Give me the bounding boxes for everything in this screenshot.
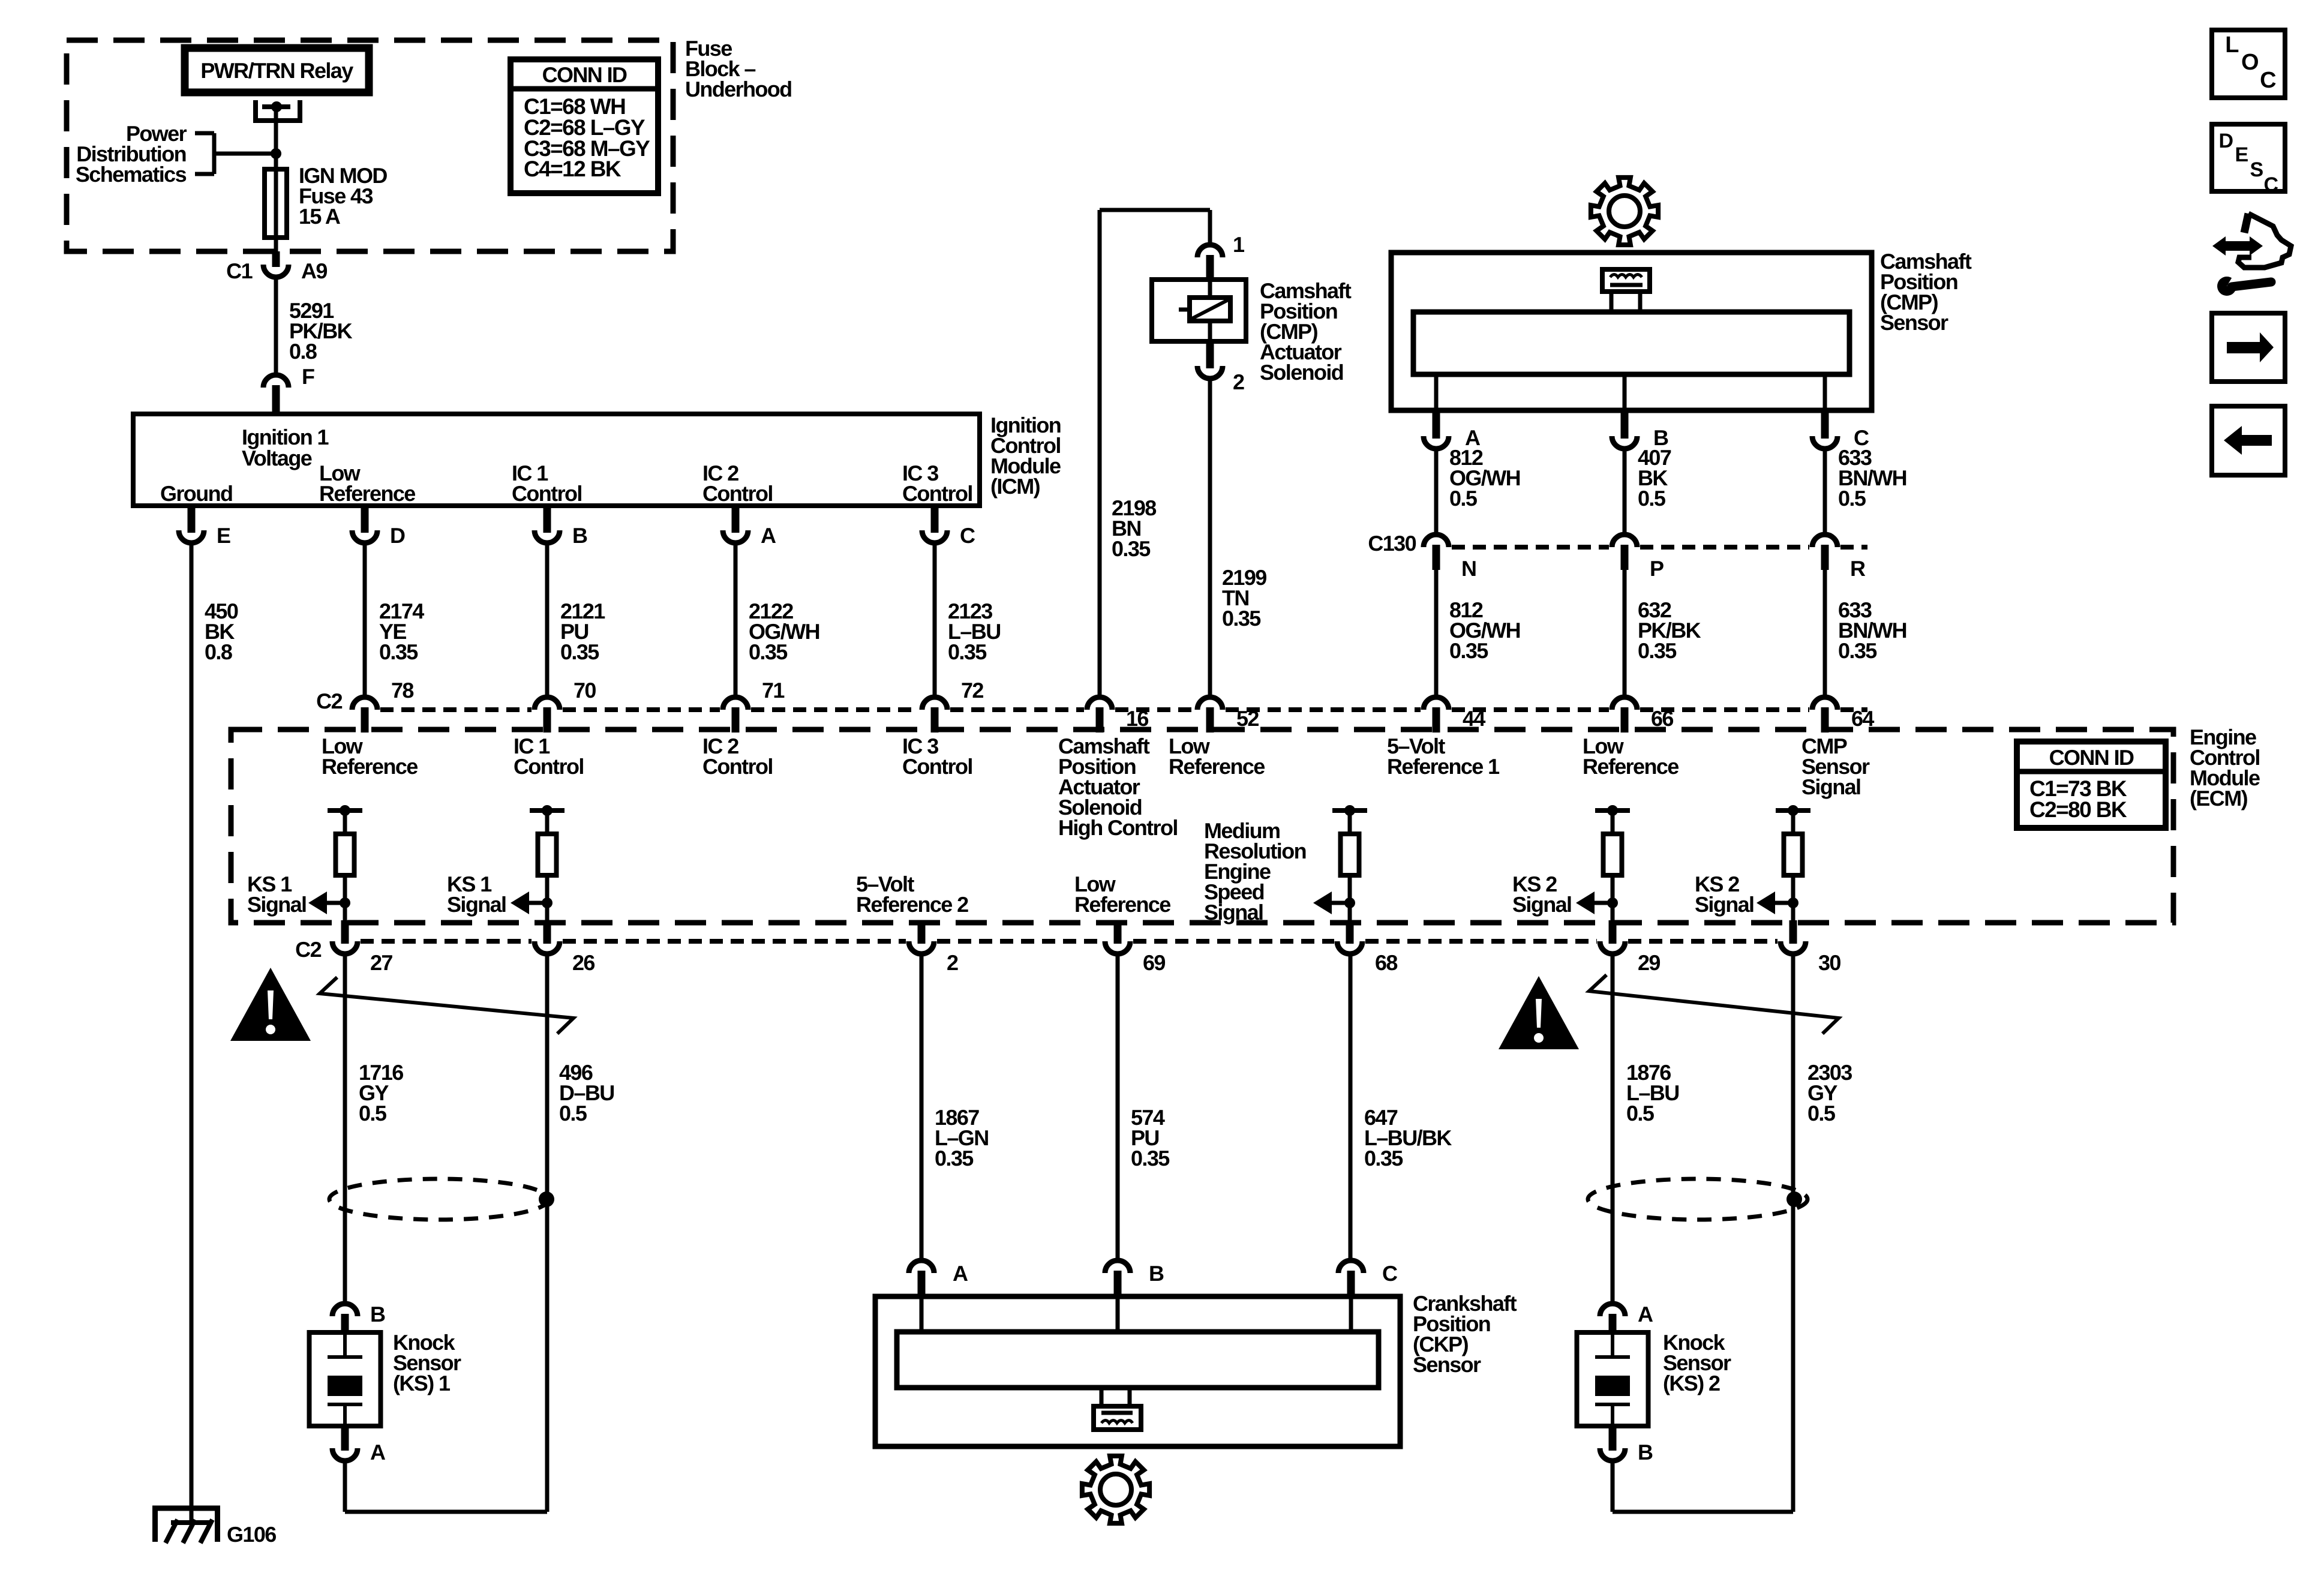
svg-text:C130: C130 [1368, 531, 1416, 556]
svg-text:0.35: 0.35 [948, 640, 987, 664]
svg-text:0.35: 0.35 [379, 640, 418, 664]
svg-text:0.35: 0.35 [1222, 606, 1261, 631]
svg-text:C2: C2 [316, 689, 342, 713]
svg-text:L: L [2225, 32, 2239, 58]
svg-text:Signal: Signal [1204, 900, 1263, 924]
svg-text:0.35: 0.35 [749, 640, 788, 664]
svg-text:0.35: 0.35 [560, 640, 599, 664]
svg-text:CONN ID: CONN ID [2049, 745, 2134, 770]
svg-text:27: 27 [370, 950, 392, 975]
svg-text:D: D [2219, 130, 2233, 152]
svg-text:2: 2 [1233, 370, 1244, 394]
svg-text:B: B [572, 523, 587, 548]
svg-text:0.35: 0.35 [1638, 638, 1677, 663]
svg-text:0.5: 0.5 [1838, 486, 1866, 511]
svg-text:P: P [1650, 556, 1664, 581]
svg-text:Signal: Signal [247, 892, 306, 917]
svg-text:0.5: 0.5 [559, 1101, 587, 1125]
svg-text:Control: Control [702, 481, 773, 506]
svg-text:Sensor: Sensor [1413, 1352, 1481, 1377]
svg-text:(ECM): (ECM) [2190, 786, 2248, 810]
svg-text:0.5: 0.5 [1638, 486, 1666, 511]
svg-text:High Control: High Control [1058, 815, 1178, 840]
svg-text:Control: Control [902, 754, 972, 779]
svg-text:E: E [217, 523, 230, 548]
svg-text:0.5: 0.5 [359, 1101, 387, 1125]
svg-text:Reference: Reference [1074, 892, 1170, 917]
svg-text:0.5: 0.5 [1626, 1101, 1655, 1125]
svg-text:G106: G106 [227, 1522, 276, 1547]
svg-text:Reference: Reference [1583, 754, 1679, 779]
svg-text:(ICM): (ICM) [990, 474, 1040, 499]
svg-text:Control: Control [902, 481, 972, 506]
svg-text:PWR/TRN Relay: PWR/TRN Relay [200, 58, 353, 83]
svg-text:(KS) 1: (KS) 1 [393, 1371, 451, 1395]
svg-text:69: 69 [1143, 950, 1165, 975]
svg-text:A: A [953, 1261, 968, 1286]
svg-text:N: N [1461, 556, 1476, 581]
svg-text:Signal: Signal [1512, 892, 1571, 917]
svg-text:78: 78 [391, 678, 413, 703]
svg-text:0.35: 0.35 [1838, 638, 1877, 663]
svg-text:1: 1 [1233, 232, 1245, 257]
svg-text:CONN ID: CONN ID [542, 62, 627, 87]
svg-text:A9: A9 [301, 259, 327, 283]
svg-text:B: B [1638, 1440, 1653, 1464]
svg-text:C4=12 BK: C4=12 BK [524, 157, 621, 181]
svg-text:30: 30 [1818, 950, 1840, 975]
svg-text:Voltage: Voltage [242, 446, 312, 470]
svg-text:0.8: 0.8 [289, 339, 317, 364]
svg-text:0.35: 0.35 [1131, 1146, 1170, 1170]
svg-text:C2=80 BK: C2=80 BK [2029, 797, 2127, 822]
svg-text:29: 29 [1638, 950, 1660, 975]
svg-text:Ground: Ground [160, 481, 232, 506]
svg-text:0.5: 0.5 [1807, 1101, 1836, 1125]
svg-text:E: E [2235, 143, 2248, 166]
svg-text:C: C [960, 523, 975, 548]
svg-text:C: C [2260, 68, 2276, 93]
svg-text:Underhood: Underhood [685, 77, 792, 101]
svg-text:Control: Control [702, 754, 773, 779]
svg-text:Signal: Signal [1695, 892, 1753, 917]
svg-text:C2: C2 [295, 937, 321, 962]
svg-text:S: S [2250, 158, 2263, 181]
svg-text:72: 72 [961, 678, 983, 703]
svg-text:B: B [1149, 1261, 1164, 1286]
svg-text:2: 2 [947, 950, 958, 975]
svg-text:15 A: 15 A [299, 204, 341, 229]
svg-text:A: A [370, 1440, 386, 1464]
svg-text:Reference: Reference [319, 481, 415, 506]
svg-text:0.35: 0.35 [1112, 536, 1151, 561]
svg-text:R: R [1850, 556, 1866, 581]
svg-text:Reference: Reference [1169, 754, 1265, 779]
svg-text:B: B [370, 1302, 385, 1326]
svg-text:Reference 2: Reference 2 [856, 892, 968, 917]
svg-text:Control: Control [512, 481, 582, 506]
svg-text:0.35: 0.35 [1364, 1146, 1403, 1170]
svg-text:70: 70 [574, 678, 596, 703]
svg-text:Signal: Signal [1801, 775, 1860, 799]
svg-text:(KS) 2: (KS) 2 [1663, 1371, 1720, 1395]
svg-text:Signal: Signal [447, 892, 506, 917]
svg-text:F: F [302, 364, 314, 389]
svg-text:Sensor: Sensor [1880, 310, 1948, 335]
svg-text:D: D [390, 523, 405, 548]
svg-text:A: A [1638, 1302, 1653, 1326]
svg-text:Solenoid: Solenoid [1260, 360, 1343, 385]
svg-text:0.5: 0.5 [1449, 486, 1478, 511]
svg-text:Control: Control [514, 754, 584, 779]
svg-text:C: C [2264, 173, 2278, 196]
svg-text:Schematics: Schematics [76, 162, 187, 187]
svg-text:71: 71 [762, 678, 785, 703]
svg-text:0.35: 0.35 [1449, 638, 1488, 663]
svg-text:0.8: 0.8 [205, 640, 232, 664]
svg-text:0.35: 0.35 [935, 1146, 974, 1170]
svg-text:A: A [761, 523, 776, 548]
svg-text:26: 26 [572, 950, 594, 975]
svg-text:Reference: Reference [322, 754, 418, 779]
svg-text:O: O [2241, 50, 2258, 75]
svg-text:68: 68 [1375, 950, 1397, 975]
svg-text:C: C [1382, 1261, 1398, 1286]
svg-text:Reference 1: Reference 1 [1387, 754, 1500, 779]
svg-text:C1: C1 [226, 259, 253, 283]
